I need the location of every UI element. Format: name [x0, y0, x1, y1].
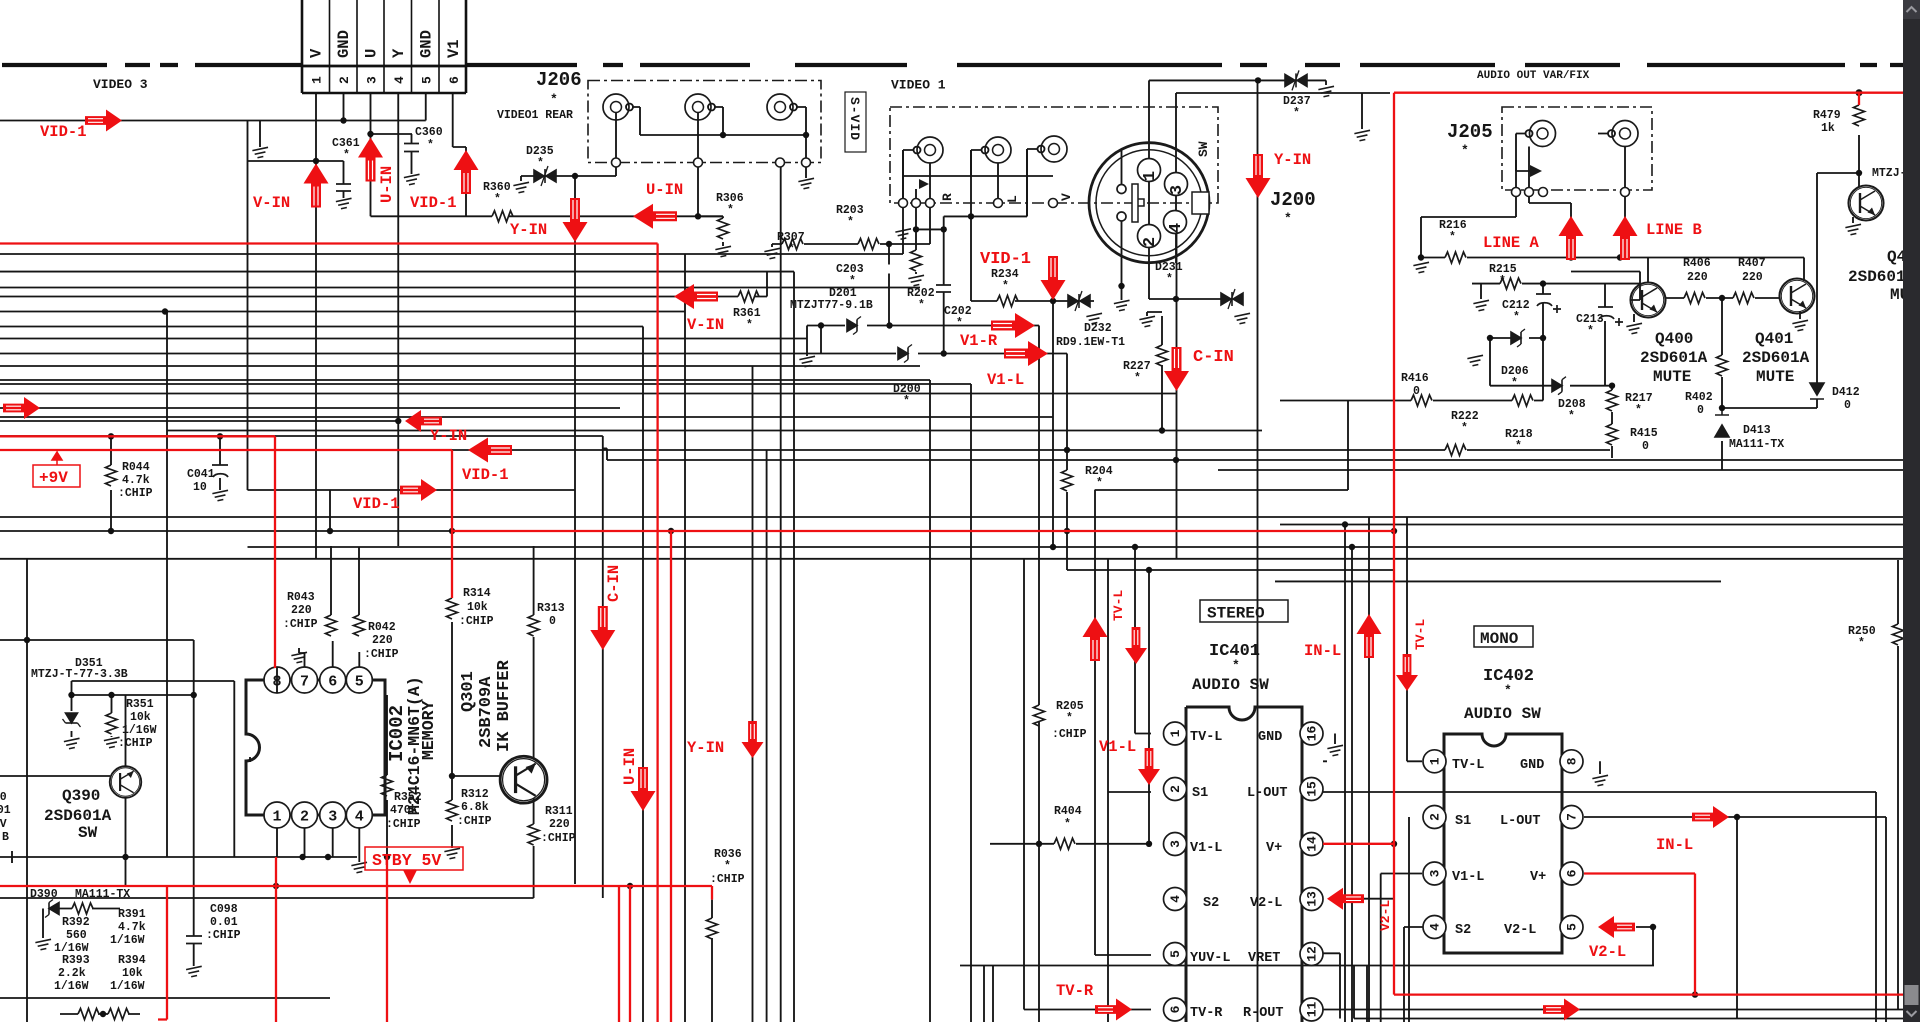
svg-text:D232: D232 — [1084, 322, 1112, 335]
svg-text:*: * — [1066, 712, 1073, 725]
svg-text:V: V — [308, 48, 326, 58]
svg-text:R415: R415 — [1630, 427, 1658, 440]
svg-text:MONO: MONO — [1480, 630, 1519, 648]
svg-text:TV-L: TV-L — [1452, 758, 1484, 773]
svg-text:R351: R351 — [126, 698, 154, 711]
svg-text:10k: 10k — [467, 601, 488, 614]
svg-text:V+: V+ — [1266, 841, 1282, 856]
svg-text:RD9.1EW-T1: RD9.1EW-T1 — [1056, 336, 1125, 349]
svg-text:1: 1 — [272, 809, 281, 826]
svg-text:R: R — [940, 193, 955, 201]
svg-text:0.01: 0.01 — [210, 916, 238, 929]
svg-text:AUDIO SW: AUDIO SW — [1464, 705, 1541, 723]
svg-text::CHIP: :CHIP — [541, 832, 576, 845]
svg-text:2: 2 — [1428, 813, 1443, 821]
svg-text:R479: R479 — [1813, 109, 1841, 122]
svg-text:2: 2 — [1168, 785, 1183, 793]
svg-text:STBY 5V: STBY 5V — [372, 851, 441, 870]
svg-text::CHIP: :CHIP — [457, 815, 492, 828]
svg-text:2SD601A: 2SD601A — [44, 807, 112, 825]
svg-text:B: B — [2, 831, 9, 844]
svg-text:0: 0 — [1697, 404, 1704, 417]
svg-text:0: 0 — [1642, 440, 1649, 453]
svg-text:R406: R406 — [1683, 257, 1711, 270]
svg-text:10k: 10k — [122, 967, 143, 980]
svg-text:2SB709A: 2SB709A — [477, 676, 496, 748]
svg-text:*: * — [724, 860, 731, 873]
svg-text:VID-1: VID-1 — [40, 123, 87, 141]
svg-text::CHIP: :CHIP — [1052, 728, 1087, 741]
svg-text:0: 0 — [1413, 385, 1420, 398]
svg-text:2: 2 — [300, 809, 309, 826]
svg-text::CHIP: :CHIP — [364, 648, 399, 661]
svg-text:R044: R044 — [122, 461, 150, 474]
svg-text:*: * — [550, 92, 558, 107]
svg-text:MUTE: MUTE — [1756, 368, 1794, 386]
svg-text:*: * — [343, 149, 350, 162]
svg-text:1/16W: 1/16W — [110, 980, 145, 993]
svg-text:1k: 1k — [1821, 122, 1835, 135]
svg-text:4.7k: 4.7k — [122, 474, 150, 487]
svg-text:*: * — [1461, 143, 1469, 158]
svg-text:V+: V+ — [1530, 870, 1546, 885]
svg-text:C360: C360 — [415, 126, 443, 139]
svg-text:*: * — [1515, 440, 1522, 453]
svg-text:TV-R: TV-R — [1190, 1006, 1223, 1021]
svg-text:4: 4 — [1428, 923, 1443, 931]
svg-text:S2: S2 — [1455, 923, 1471, 938]
svg-text:0: 0 — [1844, 399, 1851, 412]
svg-text::CHIP: :CHIP — [118, 487, 153, 500]
svg-text:5: 5 — [420, 76, 435, 84]
svg-text:3: 3 — [1428, 869, 1443, 877]
svg-text:1/16W: 1/16W — [54, 980, 89, 993]
svg-text:*: * — [494, 193, 501, 206]
svg-text:R394: R394 — [118, 954, 146, 967]
svg-text:*: * — [1499, 275, 1506, 288]
svg-text:560: 560 — [66, 929, 87, 942]
svg-text:25V: 25V — [0, 818, 7, 831]
svg-text::CHIP: :CHIP — [459, 615, 494, 628]
svg-text:MA111-TX: MA111-TX — [75, 888, 130, 901]
svg-text:220: 220 — [291, 604, 312, 617]
svg-text:VID-1: VID-1 — [353, 495, 400, 513]
svg-text:C041: C041 — [187, 468, 215, 481]
svg-text:Y-IN: Y-IN — [510, 221, 547, 239]
svg-text:1: 1 — [1141, 171, 1160, 181]
svg-text:V1-L: V1-L — [987, 371, 1024, 389]
svg-text:3: 3 — [328, 809, 337, 826]
svg-text:Q401: Q401 — [1755, 330, 1793, 348]
svg-text:3: 3 — [1168, 185, 1187, 195]
svg-text:LINE B: LINE B — [1646, 221, 1702, 239]
svg-text:4.7k: 4.7k — [118, 921, 146, 934]
svg-text:R-OUT: R-OUT — [1243, 1006, 1284, 1021]
svg-text::CHIP: :CHIP — [206, 929, 241, 942]
svg-text:D412: D412 — [1832, 386, 1860, 399]
svg-text:390: 390 — [0, 791, 7, 804]
svg-text:MTZJ-T-77-3.3B: MTZJ-T-77-3.3B — [31, 668, 128, 681]
svg-text:*: * — [727, 204, 734, 217]
svg-text:D413: D413 — [1743, 424, 1771, 437]
svg-text:*: * — [1166, 273, 1173, 286]
svg-text:S2: S2 — [1203, 896, 1219, 911]
svg-text:7: 7 — [1565, 813, 1580, 821]
svg-text:TV-L: TV-L — [1413, 619, 1428, 650]
svg-text:2SD601A: 2SD601A — [1742, 349, 1810, 367]
svg-text:4: 4 — [1167, 223, 1186, 233]
svg-text:R042: R042 — [368, 621, 396, 634]
svg-text:220: 220 — [549, 818, 570, 831]
svg-text:VID-1: VID-1 — [980, 250, 1031, 269]
svg-text:R391: R391 — [118, 908, 146, 921]
svg-text:VID-1: VID-1 — [410, 194, 457, 212]
svg-text:15: 15 — [1305, 781, 1320, 797]
svg-text:S1: S1 — [1455, 814, 1471, 829]
svg-text:LINE A: LINE A — [1483, 234, 1540, 252]
svg-text:1: 1 — [1428, 757, 1443, 765]
svg-text:*: * — [1232, 658, 1240, 673]
svg-text:C-IN: C-IN — [1193, 348, 1234, 367]
svg-text:L: L — [1005, 195, 1020, 203]
svg-text:U-IN: U-IN — [378, 166, 396, 203]
svg-text:Y: Y — [390, 48, 408, 58]
svg-text:*: * — [1858, 637, 1865, 650]
svg-text:TV-R: TV-R — [1056, 982, 1094, 1000]
svg-text:VIDEO1 REAR: VIDEO1 REAR — [497, 109, 573, 122]
svg-text:*: * — [1002, 280, 1009, 293]
svg-text:12: 12 — [1305, 946, 1320, 962]
svg-text:11: 11 — [1305, 1002, 1320, 1018]
svg-text:MTZJ-: MTZJ- — [1872, 167, 1907, 180]
svg-text:*: * — [1096, 477, 1103, 490]
svg-text:16: 16 — [1305, 726, 1320, 742]
svg-text:13: 13 — [1305, 891, 1320, 907]
svg-text:J205: J205 — [1447, 121, 1493, 143]
svg-text:V2-L: V2-L — [1378, 900, 1393, 931]
svg-text:C-IN: C-IN — [605, 565, 623, 602]
svg-text:Y-IN: Y-IN — [430, 427, 467, 445]
svg-text:*: * — [788, 243, 795, 256]
svg-text:C098: C098 — [210, 903, 238, 916]
svg-text:*: * — [903, 395, 910, 408]
svg-text:*: * — [1064, 818, 1071, 831]
svg-text:GND: GND — [418, 30, 436, 58]
svg-text:SW: SW — [78, 824, 98, 842]
svg-text:10: 10 — [193, 481, 207, 494]
svg-text:S1: S1 — [1192, 786, 1208, 801]
svg-text:V2-L: V2-L — [1250, 896, 1282, 911]
svg-text:Y-IN: Y-IN — [687, 739, 724, 757]
svg-text:3: 3 — [365, 76, 380, 84]
svg-text:R313: R313 — [537, 602, 565, 615]
svg-text:3: 3 — [1168, 840, 1183, 848]
svg-text:U-IN: U-IN — [646, 181, 683, 199]
svg-text:R402: R402 — [1685, 391, 1713, 404]
svg-text:2: 2 — [1141, 237, 1160, 247]
svg-text:Y-IN: Y-IN — [1274, 151, 1311, 169]
svg-text:V-IN: V-IN — [253, 194, 290, 212]
svg-text:VRET: VRET — [1248, 951, 1280, 966]
svg-text::CHIP: :CHIP — [710, 873, 745, 886]
svg-text:R311: R311 — [545, 805, 573, 818]
svg-text:1: 1 — [310, 76, 325, 84]
svg-text:IK BUFFER: IK BUFFER — [495, 659, 514, 752]
svg-text:*: * — [847, 216, 854, 229]
svg-text:L-OUT: L-OUT — [1247, 786, 1288, 801]
svg-text:0: 0 — [549, 615, 556, 628]
svg-text:U: U — [363, 49, 381, 58]
svg-text:J200: J200 — [1270, 189, 1316, 211]
svg-text:2.2k: 2.2k — [58, 967, 86, 980]
svg-text:7: 7 — [300, 674, 309, 691]
svg-text::CHIP: :CHIP — [386, 818, 421, 831]
svg-text:V2-L: V2-L — [1589, 943, 1626, 961]
svg-text:R407: R407 — [1738, 257, 1766, 270]
svg-text:R404: R404 — [1054, 805, 1082, 818]
svg-text:MUTE: MUTE — [1653, 368, 1691, 386]
svg-text:+9V: +9V — [39, 469, 68, 487]
svg-text:V1: V1 — [445, 39, 463, 58]
svg-text:U-IN: U-IN — [621, 748, 639, 785]
svg-text:Q390: Q390 — [62, 787, 100, 805]
svg-text:5: 5 — [1168, 950, 1183, 958]
svg-text:*: * — [1134, 372, 1141, 385]
svg-text:*: * — [1449, 231, 1456, 244]
svg-text:6.8k: 6.8k — [461, 801, 489, 814]
svg-text:R314: R314 — [463, 587, 491, 600]
svg-text:*: * — [1511, 377, 1518, 390]
svg-text:VIDEO 1: VIDEO 1 — [891, 78, 946, 93]
svg-text:*: * — [1284, 211, 1292, 226]
svg-text:V1-L: V1-L — [1099, 738, 1136, 756]
svg-text:2SD601A: 2SD601A — [1640, 349, 1708, 367]
svg-text:TV-L: TV-L — [1111, 590, 1126, 621]
svg-text:*: * — [1504, 683, 1512, 698]
svg-text:*: * — [956, 317, 963, 330]
svg-text:2: 2 — [337, 76, 352, 84]
svg-text:GND: GND — [1258, 730, 1282, 745]
svg-text:Q400: Q400 — [1655, 330, 1693, 348]
svg-text:10k: 10k — [130, 711, 151, 724]
svg-text:6: 6 — [447, 76, 462, 84]
svg-text:6: 6 — [1168, 1005, 1183, 1013]
svg-text:VID-1: VID-1 — [462, 466, 509, 484]
svg-text:YUV-L: YUV-L — [1190, 951, 1231, 966]
svg-text:V: V — [1059, 193, 1074, 201]
svg-text:V2-L: V2-L — [1504, 923, 1536, 938]
svg-text:R312: R312 — [461, 788, 489, 801]
svg-text:S-VID: S-VID — [847, 97, 862, 141]
svg-text:J206: J206 — [536, 69, 582, 91]
svg-text:VIDEO 3: VIDEO 3 — [93, 77, 148, 92]
svg-text:MTZJT77-9.1B: MTZJT77-9.1B — [790, 299, 873, 312]
svg-text:220: 220 — [1742, 271, 1763, 284]
svg-text:5: 5 — [355, 674, 364, 691]
svg-text:*: * — [918, 299, 925, 312]
svg-text:*: * — [427, 139, 434, 152]
svg-text:14: 14 — [1305, 836, 1320, 852]
svg-text:*: * — [1461, 422, 1468, 435]
svg-text:Q301: Q301 — [459, 671, 478, 712]
svg-text:MA111-TX: MA111-TX — [1729, 438, 1784, 451]
svg-text:*: * — [1587, 325, 1594, 338]
svg-text:*: * — [537, 157, 544, 170]
svg-text:IN-L: IN-L — [1304, 642, 1341, 660]
svg-text:V1-R: V1-R — [960, 332, 998, 350]
svg-text:R392: R392 — [62, 916, 90, 929]
svg-text:*: * — [1568, 410, 1575, 423]
svg-text:*: * — [1513, 311, 1520, 324]
svg-text:IN-L: IN-L — [1656, 836, 1693, 854]
svg-text::CHIP: :CHIP — [118, 737, 153, 750]
svg-text:R416: R416 — [1401, 372, 1429, 385]
svg-text:GND: GND — [1520, 758, 1544, 773]
svg-text:*: * — [1293, 107, 1300, 120]
svg-text:1: 1 — [1168, 729, 1183, 737]
svg-text:4: 4 — [1168, 895, 1183, 903]
svg-text:GND: GND — [335, 30, 353, 58]
svg-text:V1-L: V1-L — [1452, 870, 1484, 885]
svg-text:D390: D390 — [30, 888, 58, 901]
svg-text:220: 220 — [1687, 271, 1708, 284]
svg-text:SW: SW — [1196, 141, 1211, 157]
svg-text:AUDIO OUT VAR/FIX: AUDIO OUT VAR/FIX — [1477, 70, 1590, 82]
svg-text:.01: .01 — [0, 804, 11, 817]
svg-text:R043: R043 — [287, 591, 315, 604]
svg-text:R393: R393 — [62, 954, 90, 967]
svg-text:V-IN: V-IN — [687, 316, 724, 334]
svg-text:4: 4 — [392, 76, 407, 84]
svg-text:STEREO: STEREO — [1207, 605, 1265, 623]
svg-text:TV-L: TV-L — [1190, 730, 1222, 745]
svg-text:*: * — [1635, 404, 1642, 417]
svg-text:1/16W: 1/16W — [110, 934, 145, 947]
svg-text:4: 4 — [355, 809, 364, 826]
svg-text::CHIP: :CHIP — [283, 618, 318, 631]
svg-text:L-OUT: L-OUT — [1500, 814, 1541, 829]
svg-text:8: 8 — [1565, 757, 1580, 765]
svg-text:6: 6 — [328, 674, 337, 691]
svg-text:1/16W: 1/16W — [122, 724, 157, 737]
svg-text:220: 220 — [372, 634, 393, 647]
svg-text:MEMORY: MEMORY — [419, 700, 438, 760]
svg-text:*: * — [746, 319, 753, 332]
svg-text:V1-L: V1-L — [1190, 841, 1222, 856]
svg-text:6: 6 — [1565, 869, 1580, 877]
svg-text:5: 5 — [1565, 923, 1580, 931]
svg-text:AUDIO SW: AUDIO SW — [1192, 676, 1269, 694]
